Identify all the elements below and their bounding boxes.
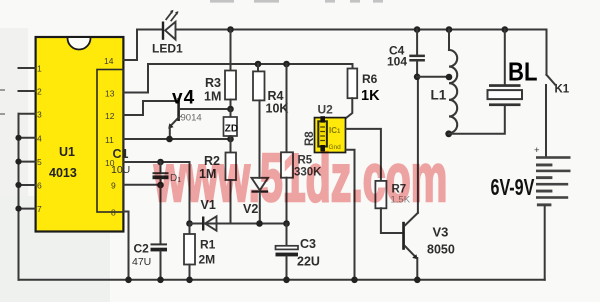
svg-text:9: 9 — [111, 181, 116, 191]
resistor R3 — [225, 71, 236, 110]
junction R3 / v4 collector / ZD — [227, 106, 234, 113]
R6 label — [361, 72, 380, 104]
R2 label — [199, 154, 220, 181]
junction C4 bottom / V3 collector / L1 tap — [414, 74, 421, 81]
svg-text:K1: K1 — [555, 84, 570, 96]
svg-text:Gnd: Gnd — [329, 144, 342, 151]
svg-text:8: 8 — [111, 208, 116, 218]
svg-text:1M: 1M — [204, 90, 221, 104]
svg-text:U2: U2 — [318, 103, 334, 117]
svg-text:R6: R6 — [362, 72, 378, 86]
resistor R2 — [226, 139, 237, 224]
wire pin9 stub — [123, 184, 160, 186]
svg-text:BL: BL — [508, 58, 537, 87]
svg-text:9014: 9014 — [181, 113, 202, 124]
svg-text:R8: R8 — [304, 131, 316, 146]
svg-text:D1: D1 — [170, 173, 181, 184]
buzzer BL — [488, 26, 523, 106]
junction R5 / V1 line / C3 — [283, 220, 290, 227]
R1 label — [199, 238, 216, 267]
U1 4013 IC body — [36, 37, 124, 232]
svg-text:V2: V2 — [243, 202, 258, 216]
svg-text:4013: 4013 — [49, 166, 77, 180]
wire C1 bottom to C2 — [160, 185, 162, 243]
battery 6V-9V — [534, 145, 571, 206]
R7 label — [391, 184, 411, 206]
wire top rail — [176, 29, 547, 31]
wire pin14 stub and riser — [123, 30, 137, 61]
wire V1 line — [190, 223, 288, 225]
U1 pin numbers — [37, 56, 116, 218]
junction pin11 / ZD bottom — [227, 136, 234, 143]
R3 label — [204, 76, 221, 104]
svg-text:11: 11 — [105, 135, 114, 145]
svg-text:104: 104 — [387, 55, 407, 69]
wire pin10 riser down to V1 line — [189, 162, 191, 224]
svg-text:3: 3 — [37, 110, 42, 120]
C2 label — [132, 242, 151, 269]
C4 label — [387, 44, 407, 69]
svg-text:R2: R2 — [204, 154, 220, 168]
V3 label — [427, 225, 455, 257]
inductor L1 — [445, 26, 457, 137]
svg-text:R5: R5 — [298, 155, 313, 167]
junction pin4-bus — [15, 135, 21, 141]
wire U2 lower-right down to bottom rail — [346, 150, 355, 280]
svg-text:22U: 22U — [297, 255, 320, 269]
C3 label — [297, 237, 320, 269]
music IC U2 — [315, 116, 346, 152]
junction pin7-bus — [15, 206, 21, 212]
junction U2 wire / bottom rail — [351, 277, 358, 284]
svg-text:+: + — [534, 145, 540, 156]
wire link top rail to second rail at R3 — [230, 30, 232, 71]
transistor v4 (9014) — [168, 98, 230, 139]
wire pin4 stub — [19, 137, 36, 139]
svg-text:7: 7 — [37, 204, 42, 214]
svg-text:v4: v4 — [172, 88, 195, 109]
wire pin10 line — [123, 161, 189, 163]
svg-text:1K: 1K — [361, 88, 380, 104]
capacitor C4 — [409, 26, 425, 77]
wire battery minus to bottom rail — [544, 206, 546, 279]
svg-text:U1: U1 — [59, 145, 75, 159]
svg-text:8050: 8050 — [427, 243, 455, 257]
svg-text:330K: 330K — [294, 167, 322, 179]
wire pin2 stub — [19, 90, 36, 92]
svg-text:2M: 2M — [199, 253, 216, 267]
wire second rail — [148, 63, 353, 65]
capacitor C2 — [151, 243, 168, 279]
svg-text:ZD: ZD — [225, 124, 238, 135]
switch K1 — [546, 30, 555, 157]
svg-text:C2: C2 — [134, 242, 150, 256]
junction pin10 / C1 top — [157, 159, 164, 166]
resistor R6 — [347, 64, 358, 118]
junction C2 / bottom rail — [157, 277, 164, 284]
wire top rail left segment — [137, 29, 162, 31]
svg-text:R3: R3 — [205, 76, 221, 90]
svg-text:C3: C3 — [300, 237, 316, 251]
junction pin10 riser / V1 line / R1 — [186, 220, 193, 227]
resistor R7 — [375, 181, 402, 233]
junction pin5-bus — [15, 159, 21, 165]
junction pin6-bus — [15, 182, 21, 188]
svg-text:1: 1 — [37, 64, 42, 74]
wire pin5 stub — [19, 161, 36, 163]
svg-text:6: 6 — [37, 181, 42, 191]
wire bottom rail — [19, 279, 545, 281]
svg-text:L1: L1 — [431, 88, 447, 103]
svg-text:R1: R1 — [200, 238, 216, 252]
R4 label — [266, 89, 289, 116]
svg-text:1.5K: 1.5K — [391, 195, 411, 206]
junction pin9 / C1 bottom — [157, 182, 164, 189]
svg-text:C1: C1 — [113, 147, 129, 161]
svg-text:12: 12 — [105, 111, 115, 121]
svg-text:V3: V3 — [433, 225, 449, 240]
svg-text:47U: 47U — [132, 256, 151, 268]
wire U2 upper-right to R7 — [346, 129, 381, 181]
junction C3 / bottom rail — [283, 277, 290, 284]
R5 label — [294, 155, 322, 179]
wire C4 bottom to L1 tap — [417, 76, 449, 78]
diode V2 — [252, 178, 269, 224]
wire pin1 stub — [19, 67, 36, 69]
wire pin8 stub and riser — [123, 212, 128, 280]
svg-text:6V-9V: 6V-9V — [491, 175, 535, 200]
junction V3 emitter / bottom rail — [414, 277, 421, 284]
wire left bus — [18, 114, 20, 280]
svg-text:4: 4 — [37, 134, 42, 144]
wire pin7 stub — [19, 208, 36, 210]
wire pin3 stub — [19, 113, 36, 115]
svg-text:2: 2 — [37, 87, 42, 97]
junction R1 / bottom rail — [186, 277, 193, 284]
svg-text:V1: V1 — [201, 198, 216, 212]
junction V2 / V1 line — [256, 220, 263, 227]
svg-text:10K: 10K — [266, 102, 289, 116]
svg-text:13: 13 — [105, 89, 115, 99]
svg-text:14: 14 — [104, 56, 114, 66]
svg-text:10U: 10U — [111, 164, 130, 176]
svg-text:5: 5 — [37, 157, 42, 167]
cropped wire stubs at left edge — [0, 89, 5, 115]
junction pin8 / bottom rail — [125, 277, 132, 284]
wire pin6 stub — [19, 184, 36, 186]
LED1 — [162, 10, 179, 40]
resistor R1 — [184, 224, 195, 280]
capacitor C3 — [276, 224, 299, 280]
resistor R4 — [253, 61, 265, 178]
diode V1 — [202, 216, 217, 230]
svg-text:1M: 1M — [199, 167, 216, 181]
cropped text fragments at top edge — [210, 0, 383, 3]
wire pin13 stub and riser to second rail — [123, 64, 148, 93]
junction v4 emitter / pin11 — [166, 136, 173, 143]
transistor V3 (8050) — [402, 77, 418, 280]
wire pin12 stub riser to v4 base — [123, 101, 177, 115]
background tint patches — [0, 28, 28, 302]
junction top rail / R3 link — [227, 26, 234, 33]
U1 label — [49, 145, 77, 180]
zener ZD — [224, 109, 238, 139]
wire L1 bottom to BL bottom — [449, 106, 505, 134]
resistor R5 — [281, 61, 293, 224]
wire pin11 line — [123, 138, 230, 140]
svg-text:LED1: LED1 — [152, 42, 183, 56]
C1 label — [111, 147, 181, 184]
capacitor C1 — [153, 162, 169, 185]
